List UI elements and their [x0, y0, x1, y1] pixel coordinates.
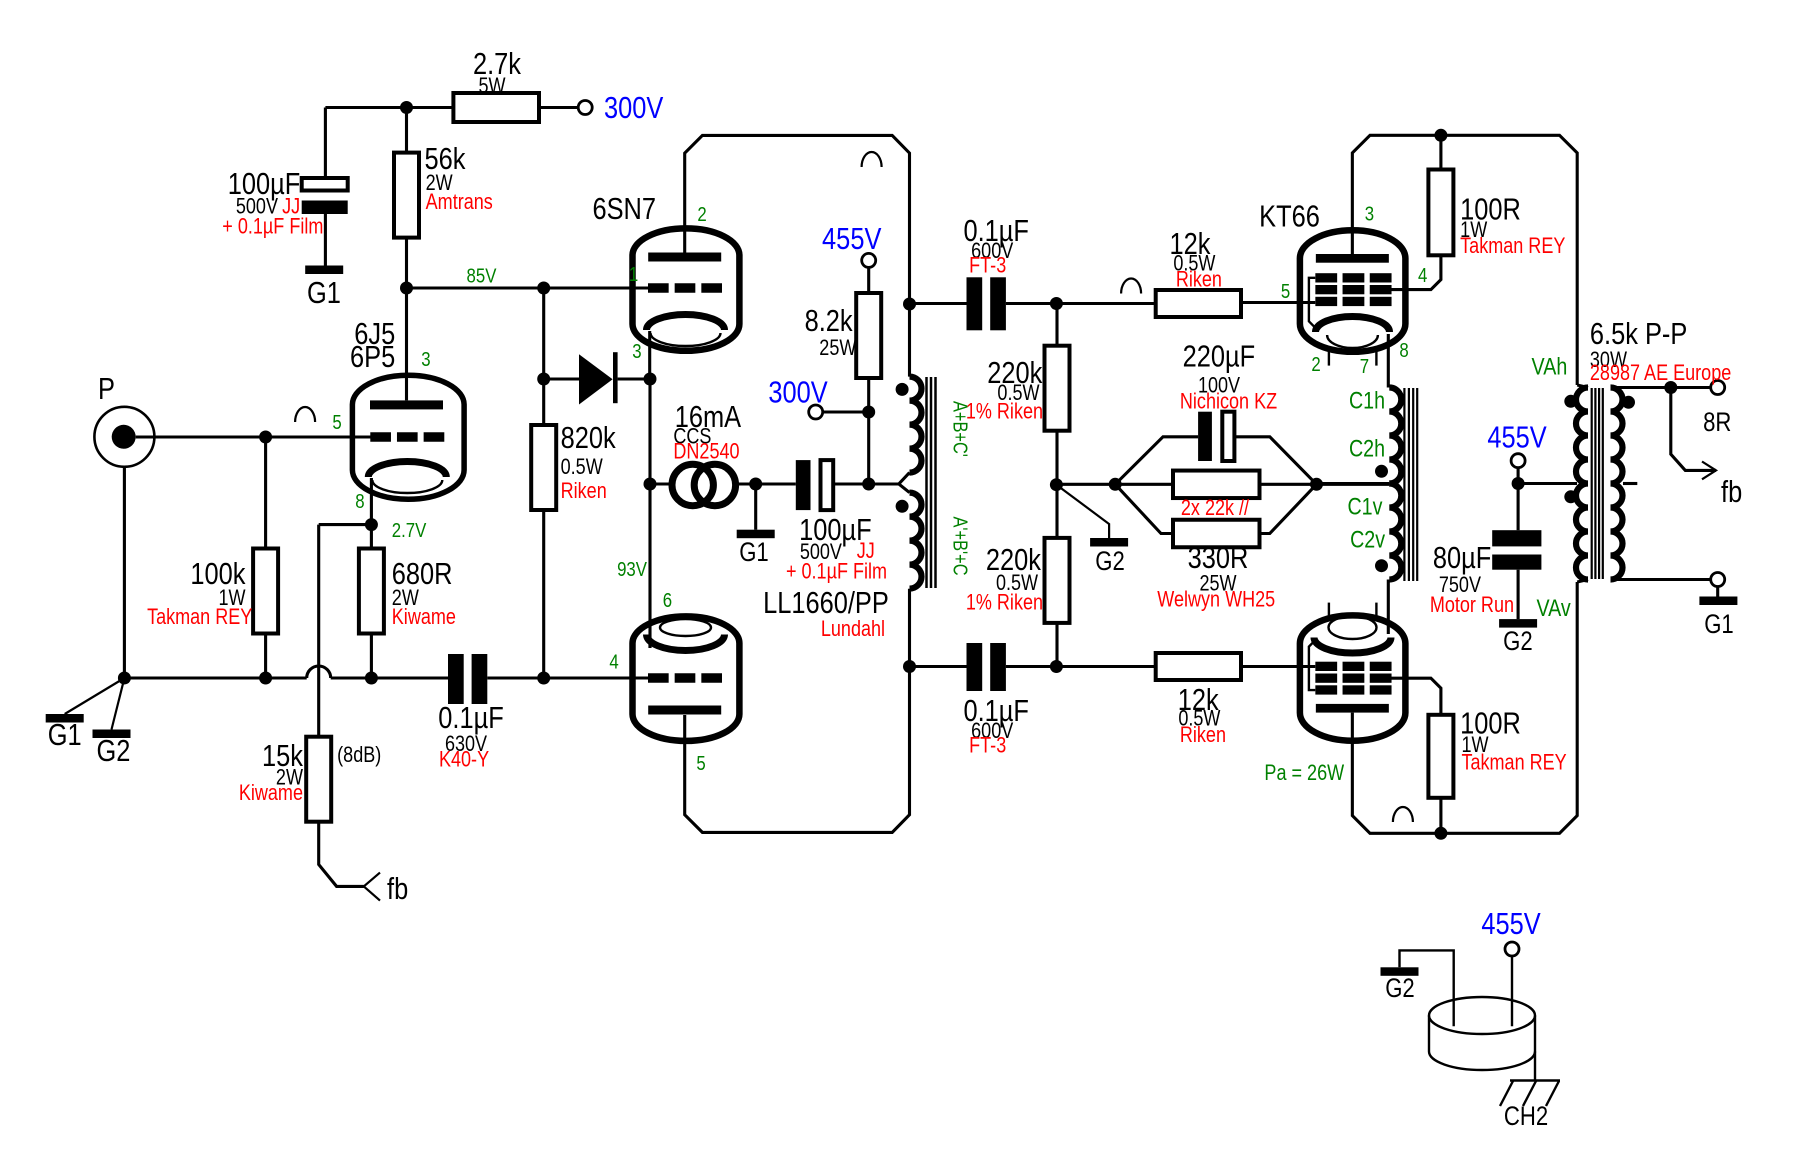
svg-text:Motor Run: Motor Run	[1430, 593, 1514, 617]
label 0.1uF value lower	[963, 694, 1028, 729]
wire junction to R 2.7k	[407, 106, 454, 109]
wire into OT primary	[1577, 385, 1588, 388]
label 6.5k P-P impedance	[1590, 317, 1687, 352]
svg-text:8: 8	[1399, 338, 1408, 361]
label G2 ground	[1095, 547, 1125, 577]
resistor 330R 25W	[1173, 520, 1260, 548]
label G1 ground	[48, 718, 82, 753]
svg-text:8.2k: 8.2k	[805, 304, 854, 339]
wire diode node to R 820k	[542, 379, 545, 425]
svg-text:80µF: 80µF	[1433, 541, 1491, 576]
wire R 56k to 85V node	[405, 238, 408, 288]
transformer OT primary winding	[1576, 388, 1588, 580]
label 100V rating	[1198, 374, 1241, 398]
wire R 12k to KT66 grid pin5	[1241, 301, 1315, 304]
node diode anode junction	[537, 373, 550, 386]
capacitor 0.1uF 630V plate a	[448, 654, 464, 704]
capacitor 80uF 750V plate a	[1492, 530, 1541, 546]
node CCS junction	[644, 478, 657, 491]
wire 455V to R 8.2k	[867, 267, 870, 293]
wire secondary to fb arrow	[1671, 388, 1716, 471]
wire G2 into heater can	[1400, 950, 1454, 1026]
label 1% Riken brand	[966, 591, 1043, 615]
transformer LL1660 primary upper winding	[910, 377, 922, 473]
svg-text:+ 0.1µF Film: + 0.1µF Film	[222, 215, 323, 239]
node 220k upper junction	[1050, 297, 1063, 310]
wire R 100R to bottom loop	[1439, 798, 1442, 834]
wire 85V to 6SN7 grid pin1	[544, 286, 649, 289]
wire R 8.2k to 300V node	[867, 378, 870, 412]
svg-text:Riken: Riken	[1176, 268, 1222, 292]
svg-text:330R: 330R	[1188, 541, 1249, 576]
label G2 ground heater	[1385, 974, 1415, 1004]
svg-text:VAv: VAv	[1537, 594, 1571, 621]
svg-text:Takman REY: Takman REY	[1461, 751, 1566, 775]
wire cathode pin8 6J5	[370, 478, 373, 525]
capacitor 220uF 100V plate +	[1222, 412, 1234, 461]
svg-text:4: 4	[1418, 263, 1427, 286]
label 0.5W rating	[997, 381, 1039, 405]
svg-text:C1h: C1h	[1349, 387, 1385, 414]
label winding VAh	[1532, 353, 1568, 380]
svg-text:fb: fb	[1721, 475, 1742, 510]
svg-text:Kiwame: Kiwame	[239, 781, 303, 805]
wire junction down to R 100k	[264, 437, 267, 549]
wire cathode to R 680R	[370, 525, 373, 549]
label 100R value	[1460, 706, 1521, 741]
svg-text:5W: 5W	[478, 74, 505, 98]
resistor 56k 2W	[394, 153, 419, 238]
label KT66 tube	[1259, 199, 1320, 234]
svg-text:P: P	[98, 372, 115, 407]
wire junction to C 100uF branch	[325, 106, 406, 109]
svg-text:7: 7	[1360, 354, 1369, 377]
wire cathode pin6 into 6SN7 lower	[648, 637, 651, 648]
node 85V junction at 820k	[537, 282, 550, 295]
label winding C2v	[1350, 526, 1385, 553]
grid 6SN7 upper	[648, 283, 722, 293]
label Takman REY brand	[147, 605, 252, 629]
hop mark bottom loop	[1393, 807, 1413, 822]
label 2.7V node voltage	[392, 518, 427, 541]
label G2 ground	[1503, 627, 1533, 657]
label 1W rating	[218, 586, 245, 610]
svg-text:G2: G2	[96, 734, 130, 769]
wire to 6SN7 lower grid pin4	[544, 676, 649, 679]
svg-text:300V: 300V	[768, 375, 827, 410]
svg-text:Kiwame: Kiwame	[392, 605, 456, 629]
svg-text:C2v: C2v	[1350, 526, 1385, 553]
label Lundahl brand	[821, 617, 885, 641]
svg-text:93V: 93V	[617, 557, 647, 580]
node CCS output junction	[749, 478, 762, 491]
resistor 15k 2W feedback	[306, 737, 331, 822]
label 6SN7 tube	[592, 192, 656, 227]
svg-text:Takman REY: Takman REY	[1460, 234, 1565, 258]
wire to diode	[544, 377, 579, 380]
svg-text:1% Riken: 1% Riken	[966, 400, 1043, 424]
label 0.1uF value upper	[963, 214, 1028, 249]
label 330R value	[1188, 541, 1249, 576]
cathode cup KT66 lower	[1314, 616, 1391, 653]
label 100uF value	[228, 167, 301, 202]
cathode cup 6J5	[368, 462, 446, 494]
wire node to R 220k upper	[1055, 304, 1058, 346]
svg-text:CH2: CH2	[1504, 1102, 1548, 1132]
phase dot OT primary upper	[1564, 395, 1577, 408]
label 5W rating	[478, 74, 505, 98]
pin 7 KT66 heater	[1360, 354, 1369, 377]
label G1 ground	[1704, 610, 1734, 640]
wire out of OT primary	[1577, 580, 1588, 583]
svg-text:G2: G2	[1503, 627, 1533, 657]
transformer LL1660 primary lower winding	[910, 493, 922, 589]
label bypass film cap note	[786, 560, 887, 584]
label 500V rating	[800, 540, 843, 564]
phase dot OT primary lower	[1564, 490, 1577, 503]
wire bus to ground G2	[112, 678, 125, 730]
transformer OT cathode winding h	[1389, 388, 1401, 484]
svg-text:455V: 455V	[1487, 420, 1546, 455]
chassis ground CH2	[1500, 1081, 1560, 1107]
phase dot OT secondary	[1622, 396, 1635, 409]
label winding C1v	[1347, 493, 1382, 520]
wire P sleeve down to bus	[123, 467, 126, 678]
label 6P5 tube	[350, 340, 395, 375]
label 2.7k value	[473, 47, 522, 82]
svg-text:5: 5	[1281, 279, 1290, 302]
capacitor 0.1uF 630V plate b	[472, 654, 488, 704]
label 220k value lower	[986, 543, 1042, 578]
wire C 220uF to node	[1234, 437, 1316, 485]
capacitor 0.1uF 600V upper plate a	[967, 277, 983, 330]
pin 1 6SN7 grid	[629, 262, 638, 285]
label 100k value	[190, 557, 246, 592]
svg-text:VAh: VAh	[1532, 353, 1568, 380]
wire cathode pin3 6SN7 upper	[648, 331, 651, 376]
label 28987 AE Europe part	[1590, 361, 1731, 385]
triode 6SN7 upper envelope	[633, 228, 740, 350]
svg-text:5: 5	[696, 751, 705, 774]
svg-text:820k: 820k	[561, 421, 617, 456]
label fb feedback	[387, 872, 408, 907]
label 0.1uF value	[438, 701, 503, 736]
connector P input	[94, 407, 154, 467]
wire R 820k to bus node	[542, 510, 545, 678]
node 6SN7 cathode junction	[644, 373, 657, 386]
label 0.5W rating	[996, 571, 1038, 595]
resistor 8.2k 25W	[856, 293, 881, 378]
svg-text:Riken: Riken	[1180, 723, 1226, 747]
transformer OT secondary winding	[1611, 388, 1623, 580]
label 820k value	[561, 421, 617, 456]
pin 4 6SN7 lower grid	[609, 650, 618, 673]
wire KT66 lower anode loop to output transformer	[1352, 582, 1577, 833]
svg-text:C1v: C1v	[1347, 493, 1382, 520]
wire CCS to C 100uF	[736, 482, 796, 485]
wire 300V terminal to node	[823, 410, 869, 413]
grid 6J5	[370, 432, 444, 442]
wire C 100uF to ground	[324, 214, 327, 266]
phase dot LL1660 upper	[896, 383, 909, 396]
label 300V supply	[604, 91, 663, 126]
label 2W rating	[392, 586, 419, 610]
label 80uF value	[1433, 541, 1491, 576]
wire node to R 220k lower	[1055, 623, 1058, 667]
anode plate KT66 lower	[1316, 704, 1389, 713]
wire node to LL1660 center tap	[869, 482, 899, 485]
label Amtrans brand	[426, 190, 493, 214]
terminal 455V supply	[862, 253, 876, 267]
svg-text:A'+B'+C: A'+B'+C	[949, 517, 972, 576]
current source CCS DN2540 16mA	[672, 464, 736, 505]
wire to R 330R	[1115, 484, 1173, 533]
svg-text:Welwyn WH25: Welwyn WH25	[1157, 588, 1275, 612]
wire bias node to ground G2	[1056, 485, 1109, 538]
label Riken brand	[1176, 268, 1222, 292]
label CH2 heater channel	[1504, 1102, 1548, 1132]
label P input	[98, 372, 115, 407]
label Riken brand	[561, 479, 607, 503]
svg-text:K40-Y: K40-Y	[439, 748, 489, 772]
node 820k bottom junction	[537, 672, 550, 685]
ground G2 (80uF)	[1499, 619, 1537, 628]
wire bus to ground G1	[65, 678, 125, 714]
wire terminal to ground G1	[1716, 587, 1719, 597]
label 8R output	[1703, 408, 1731, 438]
label 455V supply OT	[1487, 420, 1546, 455]
transformer OT cathode winding v	[1389, 484, 1401, 580]
wire 6SN7 lower anode loop to LL1660	[685, 667, 910, 833]
label 100R value	[1460, 192, 1521, 227]
wire LL1660 center tap	[899, 473, 910, 493]
svg-text:G1: G1	[739, 538, 769, 568]
wire C 100uF to 8.2k node	[833, 482, 869, 485]
svg-text:85V: 85V	[467, 264, 497, 287]
wire 455V into heater can	[1511, 956, 1513, 1027]
svg-text:455V: 455V	[822, 222, 881, 257]
wire OT secondary bottom to G1	[1612, 578, 1718, 581]
node LL1660 bottom tap junction	[903, 660, 916, 673]
svg-text:455V: 455V	[1481, 907, 1540, 942]
node 85V junction at 56k	[400, 282, 413, 295]
wire bus to C 0.1uF	[331, 676, 448, 679]
label 2x 22k parallel	[1181, 496, 1250, 520]
svg-text:G2: G2	[1095, 547, 1125, 577]
resistor 2x22k parallel	[1173, 471, 1260, 499]
svg-text:8R: 8R	[1703, 408, 1731, 438]
label 8.2k value	[805, 304, 854, 339]
svg-text:300V: 300V	[604, 91, 663, 126]
wire 85V node	[407, 286, 544, 289]
resistor 2.7k 5W	[453, 93, 539, 122]
label 12k value	[1169, 227, 1211, 262]
ground G1 (100uF)	[305, 266, 343, 275]
svg-text:LL1660/PP: LL1660/PP	[763, 586, 889, 621]
wire node down to cap node	[867, 412, 870, 484]
connector fb output arrow	[1702, 462, 1716, 480]
label 2W rating	[276, 766, 303, 790]
node 300V-feed junction	[400, 101, 413, 114]
wire cathode to feedback branch	[319, 523, 372, 526]
label bypass film cap note	[222, 215, 323, 239]
node bias junction left	[1050, 478, 1063, 491]
label winding VAv	[1537, 594, 1571, 621]
pin 5 KT66 upper grid	[1281, 279, 1290, 302]
grids KT66 upper	[1315, 273, 1391, 306]
label 6J5 tube	[354, 317, 395, 352]
svg-text:2x 22k //: 2x 22k //	[1181, 496, 1250, 520]
label Kiwame brand	[392, 605, 456, 629]
terminal 300V supply B	[809, 405, 823, 419]
pin 8 6J5 cathode	[355, 489, 364, 512]
label 15k value	[262, 739, 304, 774]
capacitor 100uF 500V plate -	[302, 201, 348, 215]
wire KT66 upper cathode to winding	[1387, 334, 1390, 388]
capacitor 100uF 500V plate +	[302, 178, 348, 191]
wire KT66 screen to R 100R	[1390, 255, 1441, 289]
svg-text:Lundahl: Lundahl	[821, 617, 885, 641]
wire R 2.7k to 300V terminal	[539, 106, 578, 109]
label Takman REY brand	[1460, 234, 1565, 258]
label 100uF value	[799, 513, 872, 548]
anode plate 6SN7 lower	[648, 706, 721, 715]
node OT center tap junction	[1512, 477, 1525, 490]
label FT-3 brand	[969, 734, 1006, 758]
terminal 300V supply	[578, 101, 592, 115]
label fb feedback output	[1721, 475, 1742, 510]
beam plate link KT66 lower	[1309, 639, 1316, 690]
svg-text:3: 3	[632, 339, 641, 362]
pin 4 KT66 screen	[1418, 263, 1427, 286]
label 85V node voltage	[467, 264, 497, 287]
wire R 100R to top loop	[1439, 135, 1442, 169]
triode 6SN7 lower envelope	[633, 616, 740, 740]
capacitor 80uF 750V plate b	[1492, 555, 1541, 570]
label 0.5W rating	[561, 455, 603, 479]
node bus at 100k	[259, 672, 272, 685]
label 1W rating	[1460, 218, 1487, 242]
svg-text:2.7V: 2.7V	[392, 518, 427, 541]
svg-text:G1: G1	[307, 276, 341, 311]
terminal 455V heater supply	[1505, 942, 1519, 956]
label 0.5W rating	[1178, 707, 1220, 731]
svg-text:+ 0.1µF Film: + 0.1µF Film	[786, 560, 887, 584]
ground G2 (bias)	[1090, 538, 1128, 547]
svg-text:28987 AE Europe: 28987 AE Europe	[1590, 361, 1731, 385]
node 100R bottom junction	[1434, 827, 1447, 840]
wire node to C 80uF	[1517, 484, 1520, 531]
wire R 680R to bus	[370, 634, 373, 679]
label 500V rating	[236, 195, 279, 219]
wire KT66 lower screen to R 100R	[1390, 678, 1441, 715]
label 455V heater supply	[1481, 907, 1540, 942]
wire 15k to fb tap	[319, 822, 364, 887]
grid hop mark KT66 upper	[1121, 279, 1141, 294]
label 12k value lower	[1178, 683, 1220, 718]
terminal 8R output	[1711, 381, 1725, 395]
wire to R 22k	[1115, 483, 1173, 486]
label JJ brand	[282, 195, 300, 219]
label 25W rating	[1199, 572, 1236, 596]
phase dot cathode winding v	[1375, 559, 1388, 572]
svg-text:0.1µF: 0.1µF	[438, 701, 503, 736]
label 220uF value	[1183, 339, 1256, 374]
node 220k lower junction	[1050, 660, 1063, 673]
label CCS	[673, 425, 711, 449]
label 600V rating	[971, 719, 1014, 743]
label 1% Riken brand	[966, 400, 1043, 424]
label 1W rating	[1461, 733, 1488, 757]
core OT main	[1592, 388, 1603, 579]
ground G1 (CCS)	[737, 530, 775, 539]
svg-text:G1: G1	[48, 718, 82, 753]
wire cathode winding center tap	[1317, 482, 1390, 485]
diode D1	[579, 352, 618, 404]
pin 3 KT66 anode	[1365, 202, 1374, 225]
wire P to grid junction	[136, 435, 266, 438]
label G1 ground	[739, 538, 769, 568]
svg-text:Riken: Riken	[561, 479, 607, 503]
wire OT secondary center stub	[1623, 482, 1637, 485]
node 8.2k bottom junction	[862, 478, 875, 491]
tetrode KT66 upper envelope	[1300, 230, 1406, 352]
capacitor 0.1uF 600V upper plate b	[990, 277, 1006, 330]
node network fan junction	[1109, 478, 1122, 491]
svg-text:1: 1	[629, 262, 638, 285]
capacitor 0.1uF 600V lower plate a	[967, 643, 983, 691]
wire to C 220uF	[1115, 437, 1198, 485]
label 220k value upper	[987, 356, 1043, 391]
pin 5 6SN7 lower anode	[696, 751, 705, 774]
node 300V junction	[862, 406, 875, 419]
node grid junction	[259, 431, 272, 444]
wire R 330R to node	[1260, 484, 1317, 533]
label 300V supply B	[768, 375, 827, 410]
hop wire bus over feedback line	[307, 666, 331, 678]
svg-text:G2: G2	[1385, 974, 1415, 1004]
wire cathode chain 6SN7	[648, 379, 651, 648]
label 750V rating	[1439, 573, 1482, 597]
grid hop mark 6J5	[295, 407, 315, 422]
node 100R top junction	[1434, 129, 1447, 142]
wire R 220k lower to bias node	[1055, 485, 1058, 538]
resistor 12k 0.5W lower grid stopper	[1156, 653, 1241, 680]
cathode cup 6SN7 upper	[647, 314, 725, 346]
terminal secondary ground	[1711, 573, 1725, 587]
svg-text:FT-3: FT-3	[969, 254, 1006, 278]
grids KT66 lower	[1315, 662, 1391, 695]
svg-text:6: 6	[663, 588, 672, 611]
svg-text:DN2540: DN2540	[673, 440, 739, 464]
wire LL1660 bottom to lower tap	[908, 589, 911, 667]
resistor 100R 1W screen lower	[1428, 715, 1453, 798]
capacitor 220uF 100V plate -	[1198, 412, 1212, 461]
cathode cup KT66 upper	[1316, 316, 1390, 348]
wire node to ground G1	[754, 484, 757, 530]
label 2W rating	[426, 171, 453, 195]
ground G1 (input)	[46, 714, 84, 723]
tetrode KT66 lower envelope	[1300, 615, 1406, 740]
svg-text:220µF: 220µF	[1183, 339, 1256, 374]
label G2 ground	[96, 734, 130, 769]
resistor 220k 0.5W upper	[1045, 346, 1070, 431]
label 56k value	[425, 142, 467, 177]
svg-text:fb: fb	[387, 872, 408, 907]
triode 6J5/6P5 envelope	[352, 375, 464, 499]
wire winding to KT66 lower cathode	[1387, 580, 1390, 635]
wire feedback branch down across bus	[317, 525, 320, 737]
